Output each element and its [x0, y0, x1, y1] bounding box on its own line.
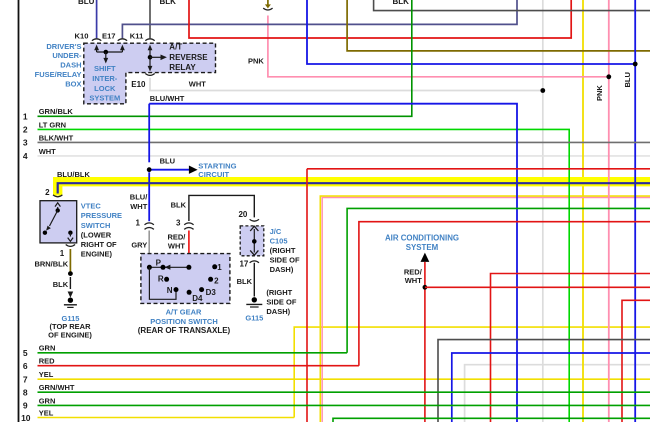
- svg-text:1: 1: [60, 249, 65, 258]
- svg-text:D3: D3: [206, 288, 217, 297]
- svg-text:RED/: RED/: [404, 267, 423, 276]
- wire 4 WHT: [38, 155, 650, 157]
- wire WHT: corner x=464.6 y=364.7: [465, 365, 650, 422]
- svg-text:10: 10: [21, 413, 31, 422]
- svg-text:G115: G115: [245, 314, 263, 323]
- svg-text:BLU/: BLU/: [130, 193, 148, 202]
- wire BRN: down x=347.1, right y=50.9: [347, 0, 650, 51]
- wire BLK (gray) top box path: [374, 0, 650, 11]
- junction connector J/C C105 box: [240, 226, 264, 256]
- svg-text:BLU: BLU: [78, 0, 95, 6]
- wire 3 BLK/WHT: [38, 141, 650, 143]
- svg-text:BLK: BLK: [53, 280, 69, 289]
- svg-text:ENGINE): ENGINE): [81, 250, 113, 259]
- connector 1 (VTEC): [66, 245, 75, 247]
- wire 9 GRN: [38, 404, 650, 406]
- wire 2 LT GRN: [38, 129, 570, 422]
- junction dot BLU: [633, 62, 638, 67]
- svg-text:1: 1: [135, 218, 140, 227]
- svg-text:DRIVER'S: DRIVER'S: [46, 42, 81, 51]
- svg-text:RED: RED: [39, 357, 55, 366]
- svg-text:DASH): DASH): [266, 307, 290, 316]
- svg-text:YEL: YEL: [39, 408, 54, 417]
- svg-text:BLU: BLU: [623, 72, 632, 87]
- svg-text:1: 1: [23, 111, 28, 121]
- svg-text:SIDE OF: SIDE OF: [266, 298, 296, 307]
- wire BLK bridge (conn 3 to J/C 20): [189, 195, 254, 221]
- wire YEL vertical x=583: [582, 0, 584, 422]
- svg-text:K10: K10: [75, 32, 89, 41]
- svg-text:VTEC: VTEC: [81, 202, 102, 211]
- wire RED branch right from dot: [425, 286, 650, 288]
- svg-text:GRN: GRN: [39, 396, 56, 405]
- svg-text:R: R: [158, 274, 164, 283]
- switch leg to N contact: [149, 267, 176, 299]
- wire RED: corner x=490.5 y=273.5: [491, 274, 650, 422]
- wire 6 RED: [38, 365, 359, 367]
- relay A/T REVERSE RELAY (K11-E10 path with arrows): [149, 50, 151, 67]
- svg-text:SYSTEM: SYSTEM: [406, 243, 439, 252]
- VTEC pressure switch box: [40, 201, 77, 243]
- svg-text:PRESSURE: PRESSURE: [81, 211, 122, 220]
- wire RED top U: down at x=189, right at y=38, up at x=571: [189, 0, 571, 38]
- svg-text:RIGHT OF: RIGHT OF: [81, 240, 117, 249]
- svg-text:SHIFT: SHIFT: [94, 64, 116, 73]
- svg-text:2: 2: [45, 188, 50, 197]
- svg-text:BLK: BLK: [393, 0, 410, 6]
- junction dot PNK: [606, 74, 611, 79]
- node BLU junction: [147, 167, 152, 172]
- VTEC switch internals: [57, 207, 59, 210]
- wire BLU/BLK highlight band: [58, 182, 650, 196]
- svg-text:E17: E17: [102, 32, 116, 41]
- svg-text:P: P: [156, 258, 162, 267]
- svg-text:7: 7: [23, 374, 28, 384]
- svg-text:BRN/BLK: BRN/BLK: [34, 259, 68, 268]
- svg-text:WHT: WHT: [168, 242, 185, 251]
- svg-text:DASH): DASH): [270, 265, 294, 274]
- wire YEL: corner x=294.2 y=327.1 (wire 10 riser): [294, 327, 650, 417]
- svg-text:8: 8: [23, 387, 28, 397]
- svg-text:(RIGHT: (RIGHT: [266, 288, 292, 297]
- wire GRN: corner x=333 y=418.3: [333, 418, 650, 422]
- svg-text:WHT: WHT: [405, 276, 422, 285]
- wire PNK: down x=267.9, right y=76.8 to junction at x=608.8: [268, 16, 609, 77]
- svg-text:(RIGHT: (RIGHT: [270, 246, 296, 255]
- wire GRN: corner x=347.1 y=208.4: [347, 208, 650, 352]
- svg-text:WHT: WHT: [130, 202, 147, 211]
- junction dot RED/WHT: [423, 285, 428, 290]
- svg-text:PNK: PNK: [595, 85, 604, 101]
- wire BLU (top, into K10): [96, 0, 98, 38]
- svg-text:2: 2: [23, 125, 28, 135]
- wire BLK to right G115: [253, 263, 255, 297]
- wire WHT/navy E17 feed: horizontal y=24.4 from E17 to x=517 then up: [122, 0, 517, 38]
- wire GRY: [148, 231, 150, 254]
- svg-text:REVERSE: REVERSE: [169, 53, 208, 62]
- svg-text:K11: K11: [130, 32, 144, 41]
- wire BLK to G115: [69, 277, 71, 289]
- svg-text:BLU/BLK: BLU/BLK: [57, 170, 90, 179]
- svg-text:4: 4: [23, 151, 28, 161]
- svg-text:GRY: GRY: [131, 240, 147, 249]
- svg-text:5: 5: [23, 348, 28, 358]
- wire BLK (top, into K11): [149, 0, 151, 38]
- svg-text:RELAY: RELAY: [169, 63, 196, 72]
- connector edge bar (left): [18, 0, 20, 422]
- svg-text:(REAR OF TRANSAXLE): (REAR OF TRANSAXLE): [138, 326, 231, 335]
- svg-text:SIDE OF: SIDE OF: [270, 256, 300, 265]
- svg-text:9: 9: [23, 401, 28, 411]
- svg-text:BLK: BLK: [160, 0, 177, 6]
- svg-text:E10: E10: [131, 80, 146, 89]
- shift interlock feed wiring (K10/E17 bus with arrows): [96, 50, 98, 53]
- svg-text:LT GRN: LT GRN: [39, 120, 66, 129]
- wire BRN stub into top inline connector: [267, 0, 269, 5]
- svg-text:3: 3: [176, 218, 181, 227]
- A/T gear position switch box: [141, 254, 230, 304]
- svg-text:WHT: WHT: [189, 79, 206, 88]
- svg-text:BLU/WHT: BLU/WHT: [150, 94, 185, 103]
- wire RED/WHT to air conditioning (arrow up): [421, 253, 430, 262]
- junction dot BRN/BLK-BLK: [68, 271, 73, 276]
- svg-text:BLK/WHT: BLK/WHT: [39, 133, 74, 142]
- svg-text:UNDER-: UNDER-: [52, 51, 82, 60]
- svg-text:BLK: BLK: [237, 277, 253, 286]
- svg-text:D4: D4: [192, 294, 203, 303]
- wire RED: corner x=307 y=169: [307, 168, 650, 170]
- switch contact P line with arrow: [149, 266, 189, 268]
- wire PNK: corner x=322.2 y=197.6: [322, 198, 650, 422]
- ground G115 (right side of dash): [252, 297, 257, 302]
- svg-text:LOCK: LOCK: [94, 84, 116, 93]
- svg-text:1: 1: [217, 263, 222, 272]
- wire BLU/WHT: right y=103.7 from x=149.2 to 517, down x=517: [149, 104, 517, 422]
- svg-text:GRN: GRN: [39, 344, 56, 353]
- svg-text:J/C: J/C: [270, 227, 282, 236]
- svg-text:GRN/WHT: GRN/WHT: [39, 383, 75, 392]
- wire BLK: corner x=438 y=339.6: [438, 340, 650, 422]
- svg-text:2: 2: [214, 277, 219, 286]
- wire 8 GRN/WHT: [38, 391, 650, 393]
- wire WHT vertical x=542.8: [542, 0, 544, 422]
- svg-text:OF ENGINE): OF ENGINE): [48, 330, 92, 339]
- wire BLU/WHT vertical to starting circuit node: [148, 104, 150, 163]
- svg-text:PNK: PNK: [248, 56, 264, 65]
- wire 10 YEL: [38, 417, 295, 419]
- wire BLU: down x=307, right y=64 to junction at x=635.2: [307, 0, 635, 64]
- svg-text:SWITCH: SWITCH: [81, 221, 111, 230]
- wire RED/WHT: [188, 231, 190, 254]
- svg-text:POSITION SWITCH: POSITION SWITCH: [150, 317, 218, 326]
- svg-text:YEL: YEL: [39, 370, 54, 379]
- inline connector (BRN/PNK) arcs: [263, 8, 272, 10]
- wire 7 YEL: [38, 378, 650, 380]
- svg-text:RED/: RED/: [167, 232, 186, 241]
- wire RED: corner x=622 y=300.3: [622, 300, 650, 422]
- svg-text:BLU: BLU: [160, 156, 175, 165]
- svg-text:A/T GEAR: A/T GEAR: [166, 307, 202, 316]
- svg-text:20: 20: [238, 210, 247, 219]
- wire YEL: corner x=320.3 y=196.1: [320, 196, 650, 422]
- svg-text:WHT: WHT: [39, 147, 56, 156]
- driver's under-dash fuse/relay box (dashed L-shape): [84, 43, 216, 104]
- wire BLU: corner x=451.8 y=353: [452, 353, 650, 422]
- svg-text:C105: C105: [270, 236, 288, 245]
- svg-text:CIRCUIT: CIRCUIT: [198, 170, 229, 179]
- svg-text:6: 6: [23, 361, 28, 371]
- svg-text:BLK: BLK: [171, 201, 187, 210]
- svg-text:A/T: A/T: [169, 43, 182, 52]
- svg-text:N: N: [167, 286, 173, 295]
- connector E10: [145, 74, 154, 76]
- wire 5 GRN: [38, 352, 348, 354]
- wire BLU vertical x=635.2: [634, 0, 636, 422]
- wire BRN/BLK to ground: [69, 249, 71, 274]
- svg-text:3: 3: [23, 138, 28, 148]
- svg-text:(LOWER: (LOWER: [81, 230, 112, 239]
- ground G115 (top rear of engine): [68, 292, 74, 298]
- svg-text:SYSTEM: SYSTEM: [89, 93, 120, 102]
- wire 1 GRN/BLK: [38, 0, 412, 116]
- svg-text:BOX: BOX: [65, 79, 81, 88]
- wire BLU arrow to starting circuit: [152, 169, 190, 171]
- svg-text:INTER-: INTER-: [92, 74, 118, 83]
- wire WHT from E10: [150, 78, 543, 91]
- svg-text:FUSE/RELAY: FUSE/RELAY: [35, 70, 82, 79]
- wire BLU/BLK core: [58, 183, 650, 193]
- svg-text:GRN/BLK: GRN/BLK: [39, 107, 74, 116]
- svg-text:DASH: DASH: [60, 61, 81, 70]
- wire RED: corner x=358.9 y=221.7: [359, 222, 650, 366]
- wire PNK vertical x=608.8: [608, 0, 610, 422]
- junction dot WHT: [540, 88, 545, 93]
- svg-text:AIR CONDITIONING: AIR CONDITIONING: [385, 233, 459, 242]
- svg-text:17: 17: [239, 259, 248, 268]
